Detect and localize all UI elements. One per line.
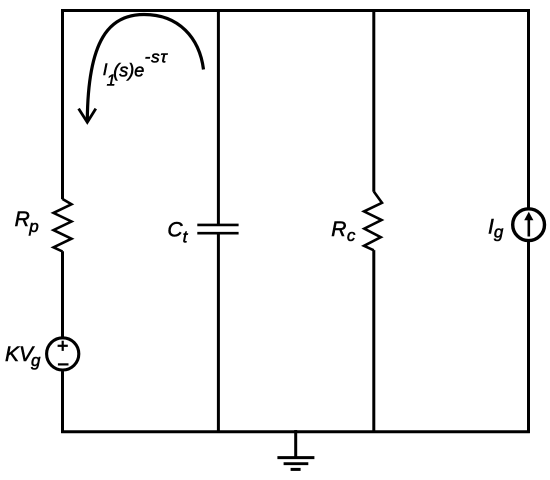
ground bar 2 [284, 462, 309, 465]
wire Rc branch lower [372, 250, 375, 433]
svg-text:p: p [28, 217, 38, 236]
voltage source KVg circle [47, 338, 79, 370]
resistor R_p [54, 199, 72, 252]
wire bottom rail [61, 430, 530, 433]
svg-text:C: C [167, 218, 183, 241]
voltage source minus sign [58, 363, 69, 365]
wire right branch upper [527, 9, 530, 208]
current source arrowhead [524, 212, 533, 221]
ground bar 1 [277, 456, 314, 459]
voltage source plus sign [58, 341, 68, 351]
svg-text:g: g [494, 223, 504, 242]
svg-text:-sτ: -sτ [145, 48, 169, 67]
wire left branch upper [61, 9, 64, 199]
wire left branch middle [61, 251, 64, 336]
wire top rail [61, 9, 530, 12]
ground bar 3 [291, 468, 301, 471]
current source arrow [527, 219, 530, 237]
current source Ig circle [513, 209, 545, 241]
svg-text:R: R [15, 208, 30, 231]
svg-text:t: t [183, 228, 189, 247]
wire left branch lower [61, 371, 64, 433]
capacitor C_t [197, 225, 238, 233]
loop current arrowhead [79, 109, 96, 123]
svg-text:g: g [31, 351, 41, 370]
svg-text:c: c [347, 226, 356, 245]
wire right branch lower [527, 242, 530, 433]
wire Rc branch upper [372, 9, 375, 192]
ground stem [294, 430, 297, 457]
wire capacitor branch upper [217, 9, 220, 225]
svg-text:R: R [331, 218, 346, 241]
resistor R_c [364, 192, 382, 251]
loop current arc [87, 15, 203, 121]
wire capacitor branch lower [217, 233, 220, 433]
svg-text:(s)e: (s)e [113, 60, 144, 80]
